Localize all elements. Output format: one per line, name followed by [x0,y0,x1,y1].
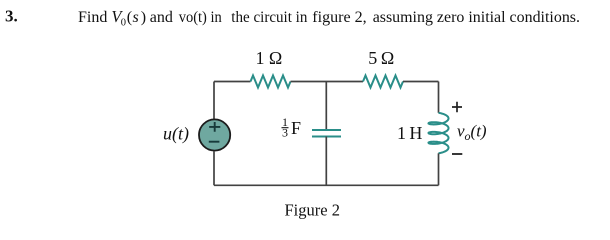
svg-text:s: s [133,9,139,26]
wire: middle branch lower segment from capacitor [325,137,327,186]
figure caption Figure 2 [285,200,340,219]
svg-text:(: ( [127,9,132,26]
capacitor C1 bottom plate [312,136,341,138]
svg-text:1H: 1H [397,123,422,143]
svg-text:assuming zero initial conditio: assuming zero initial conditions. [373,9,580,26]
svg-text:F: F [291,118,301,138]
resistor R1 (1 ohm) zigzag [251,76,291,88]
wire: right branch lower segment [438,153,440,185]
output polarity plus sign [452,102,462,113]
svg-text:vo(t) in: vo(t) in [179,9,222,26]
voltage source plus sign [209,122,220,132]
svg-text:vo(t): vo(t) [457,122,487,144]
svg-text:3: 3 [282,126,288,140]
voltage source minus sign [209,141,220,143]
svg-text:5Ω: 5Ω [368,48,394,68]
inductor L1 coil [429,113,449,154]
inductor value label 1 H [397,123,422,143]
resistor R1 value label 1 ohm [256,48,283,68]
resistor R2 value label 5 ohm [368,48,394,68]
svg-text:and: and [150,9,173,26]
wire: top-left segment from node A to resistor R1 [214,81,251,83]
problem statement: Find V0(s) and vo(t)... [78,7,580,28]
wire: right branch upper segment to inductor [438,82,440,113]
wire: top-middle segment from R1 through node B to resistor R2 [291,81,364,83]
svg-text:Find: Find [78,9,107,26]
wire: left branch upper segment [213,82,215,120]
wire: top-right segment from R2 to top-right corner [403,81,439,83]
voltage source u(t) circle [199,119,230,150]
svg-text:1Ω: 1Ω [256,48,283,68]
capacitor C1 top plate [312,129,341,131]
wire: left branch lower segment [213,151,215,185]
wire: middle branch upper segment to capacitor [325,82,327,131]
svg-text:): ) [141,9,146,26]
capacitor value label 1/3 F [282,115,302,139]
wire: bottom return wire [214,184,439,186]
output polarity minus sign [452,153,462,155]
problem number 3. [5,7,18,26]
source label u(t) [163,123,189,144]
svg-text:Figure 2: Figure 2 [285,200,340,219]
svg-text:u(t): u(t) [163,123,189,144]
output voltage label vo(t) [457,122,487,144]
resistor R2 (5 ohm) zigzag [363,76,403,88]
svg-text:the circuit in: the circuit in [231,9,307,26]
svg-text:0: 0 [121,17,126,28]
svg-text:3.: 3. [5,7,18,26]
svg-text:figure 2,: figure 2, [312,9,366,26]
